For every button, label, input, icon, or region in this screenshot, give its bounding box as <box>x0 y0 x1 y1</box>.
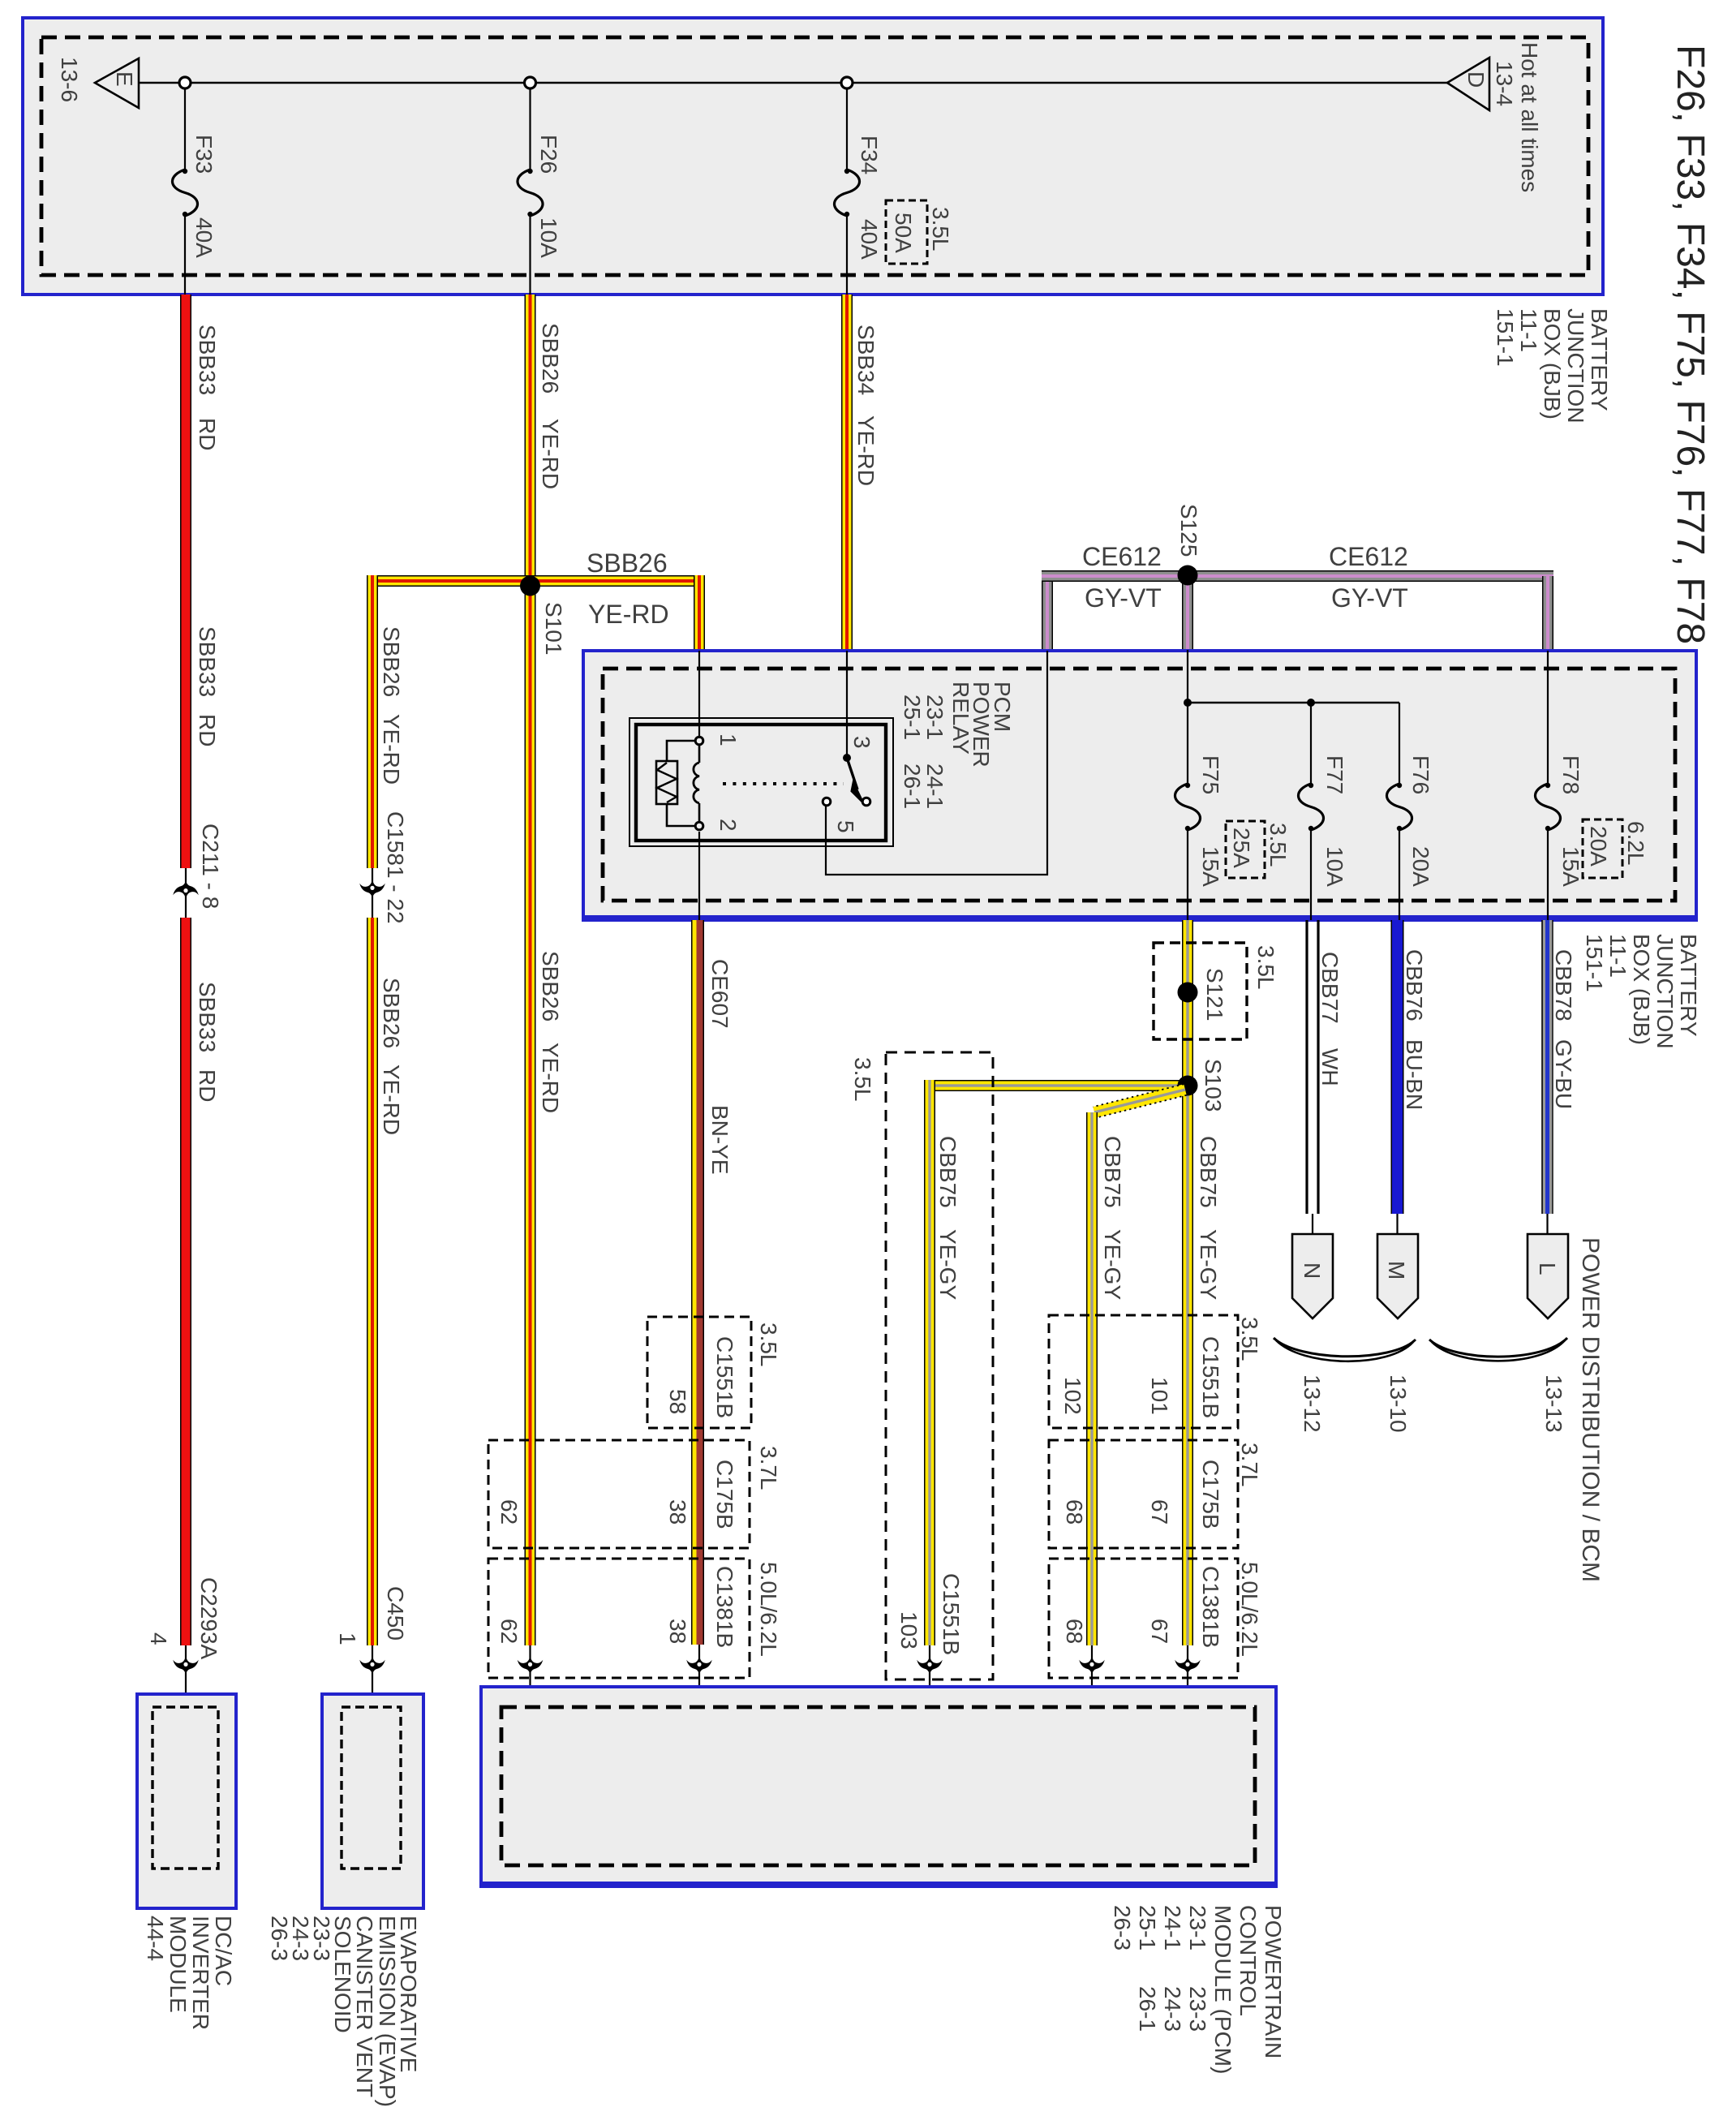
svg-text:13-12: 13-12 <box>1300 1374 1325 1433</box>
bus tap node <box>841 77 853 88</box>
svg-text:CBB75: CBB75 <box>1196 1136 1221 1208</box>
fuse F34 40A <box>846 88 848 170</box>
battery junction box BJB (top) <box>23 18 1603 295</box>
wire CBB76 BU-BN <box>1391 920 1404 1214</box>
svg-text:L: L <box>1535 1262 1560 1275</box>
svg-text:CE607: CE607 <box>707 959 733 1029</box>
wire SBB34 YE-RD <box>841 295 853 651</box>
svg-text:INVERTER: INVERTER <box>188 1916 213 2030</box>
svg-text:3.7L: 3.7L <box>756 1446 781 1490</box>
off-page reference triangle E <box>95 58 139 108</box>
svg-text:15A: 15A <box>1558 846 1583 887</box>
BJB inner dashed border <box>41 37 1588 275</box>
rail feeding F75/F77/F76 <box>1188 702 1399 703</box>
svg-text:GY-BU: GY-BU <box>1551 1039 1576 1109</box>
bus tap node <box>525 77 536 88</box>
svg-text:25A: 25A <box>1229 828 1254 868</box>
svg-text:BATTERY: BATTERY <box>1676 934 1701 1037</box>
fuse F76 20A <box>1399 703 1400 785</box>
svg-text:C1551B: C1551B <box>1198 1336 1223 1418</box>
svg-text:YE-RD: YE-RD <box>853 415 879 486</box>
svg-text:S101: S101 <box>541 602 566 655</box>
splice S121 <box>1154 943 1247 1039</box>
svg-text:26-1: 26-1 <box>1135 1986 1160 2032</box>
wire CE612 GY-VT <box>1042 576 1053 650</box>
svg-text:11-1: 11-1 <box>1516 308 1541 352</box>
svg-text:D: D <box>1463 71 1489 88</box>
diagonal CBB75 branch <box>1093 1084 1186 1118</box>
svg-text:3.5L: 3.5L <box>928 207 953 252</box>
svg-text:CBB75: CBB75 <box>1100 1136 1125 1208</box>
svg-text:RD: RD <box>195 714 220 746</box>
svg-text:SBB26: SBB26 <box>379 978 404 1048</box>
relay coil <box>667 741 695 826</box>
svg-text:C1381B: C1381B <box>712 1566 737 1648</box>
svg-text:POWER DISTRIBUTION / BCM: POWER DISTRIBUTION / BCM <box>1577 1237 1604 1582</box>
svg-text:F33: F33 <box>191 135 217 174</box>
svg-text:40A: 40A <box>857 219 882 260</box>
svg-text:44-4: 44-4 <box>143 1916 168 1961</box>
svg-text:13-6: 13-6 <box>57 57 82 102</box>
svg-text:62: 62 <box>496 1499 522 1525</box>
in-line connector C211-8 <box>185 868 187 918</box>
svg-text:3.5L: 3.5L <box>1265 823 1291 867</box>
svg-text:15A: 15A <box>1198 846 1223 887</box>
svg-text:23-1: 23-1 <box>1185 1905 1210 1950</box>
svg-text:F26: F26 <box>536 135 561 174</box>
svg-text:SBB26: SBB26 <box>379 626 404 697</box>
svg-text:58: 58 <box>665 1389 690 1414</box>
svg-text:JUNCTION: JUNCTION <box>1652 934 1678 1049</box>
fuse F75 15A <box>1187 703 1188 785</box>
fuse F77 10A <box>1310 703 1312 785</box>
svg-text:10A: 10A <box>1322 846 1347 887</box>
svg-text:1: 1 <box>335 1632 360 1645</box>
svg-text:JUNCTION: JUNCTION <box>1563 308 1588 424</box>
svg-text:BN-YE: BN-YE <box>707 1105 733 1175</box>
svg-text:S125: S125 <box>1176 504 1201 557</box>
svg-text:SBB26: SBB26 <box>587 548 668 578</box>
lead from SBB26 branch to relay pin 1 <box>698 651 700 738</box>
svg-text:CONTROL: CONTROL <box>1235 1905 1261 2016</box>
connector M <box>1377 1234 1418 1318</box>
svg-text:3.5L: 3.5L <box>756 1322 781 1367</box>
svg-text:26-3: 26-3 <box>1110 1905 1135 1950</box>
svg-text:SBB33: SBB33 <box>195 982 220 1052</box>
connector L <box>1528 1234 1568 1318</box>
svg-text:EMISSION (EVAP): EMISSION (EVAP) <box>375 1916 400 2107</box>
svg-text:C1581 - 22: C1581 - 22 <box>383 811 408 924</box>
wire CBB75 YE-GY left (3.5L) <box>924 1080 935 1645</box>
svg-text:3: 3 <box>849 736 874 749</box>
svg-text:5: 5 <box>833 820 858 833</box>
off-page reference triangle D <box>1447 58 1489 110</box>
connector C175B (3.7L) box right <box>1049 1440 1238 1548</box>
relay pin 5 <box>823 798 831 806</box>
svg-text:F75: F75 <box>1198 755 1223 794</box>
svg-text:CE612: CE612 <box>1329 542 1408 571</box>
svg-text:4: 4 <box>146 1632 171 1645</box>
svg-text:5.0L/6.2L: 5.0L/6.2L <box>756 1562 781 1657</box>
svg-text:CE612: CE612 <box>1082 542 1162 571</box>
svg-text:24-1: 24-1 <box>1160 1905 1185 1950</box>
6.2L 20A alternate rating box <box>1583 819 1622 878</box>
svg-text:C450: C450 <box>383 1586 408 1641</box>
DC/AC inverter module box <box>137 1694 236 1908</box>
fuse F78 15A <box>1547 651 1549 785</box>
svg-text:103: 103 <box>896 1611 922 1649</box>
svg-text:23-1: 23-1 <box>922 695 947 740</box>
svg-text:E: E <box>112 71 137 87</box>
svg-text:SBB26: SBB26 <box>538 323 563 394</box>
svg-text:38: 38 <box>665 1619 690 1644</box>
lead relay pin2 to CE607 <box>698 832 700 920</box>
svg-text:F78: F78 <box>1558 755 1583 794</box>
svg-text:151-1: 151-1 <box>1493 308 1518 367</box>
svg-text:3.5L: 3.5L <box>850 1057 875 1102</box>
svg-text:CBB78: CBB78 <box>1551 949 1576 1021</box>
svg-text:F77: F77 <box>1322 755 1347 794</box>
relay actuation dotted link <box>723 782 844 785</box>
svg-text:62: 62 <box>496 1619 522 1644</box>
battery junction box BJB (lower, PCM power relay) <box>583 651 1696 920</box>
relay switch blade <box>847 758 857 789</box>
svg-text:C1381B: C1381B <box>1198 1566 1223 1648</box>
svg-text:C175B: C175B <box>1198 1460 1223 1529</box>
svg-text:13-4: 13-4 <box>1492 61 1517 106</box>
svg-text:13-10: 13-10 <box>1386 1374 1411 1433</box>
svg-text:C1551B: C1551B <box>712 1336 737 1418</box>
svg-text:SBB33: SBB33 <box>195 626 220 697</box>
svg-text:C2293A: C2293A <box>196 1577 221 1660</box>
svg-text:3.5L: 3.5L <box>1237 1317 1262 1361</box>
svg-text:MODULE: MODULE <box>165 1916 191 2013</box>
svg-text:C211 - 8: C211 - 8 <box>198 824 223 909</box>
relay pin 2 <box>695 822 703 830</box>
connector C1551B (3.5L) pin 58 box <box>647 1317 751 1428</box>
relay pin 3 <box>843 754 851 762</box>
3.5L 50A alternate rating box <box>886 200 927 264</box>
connector C175B (3.7L) box left <box>488 1440 750 1548</box>
svg-text:CBB77: CBB77 <box>1317 952 1343 1024</box>
svg-text:10A: 10A <box>536 217 561 258</box>
svg-text:YE-RD: YE-RD <box>379 714 404 785</box>
PCM power relay box <box>630 718 893 846</box>
fuse F26 10A <box>529 88 531 170</box>
svg-text:GY-VT: GY-VT <box>1085 583 1162 613</box>
wire CBB75 YE-GY center <box>1086 1112 1098 1645</box>
svg-text:40A: 40A <box>191 217 217 258</box>
svg-text:S121: S121 <box>1202 968 1227 1021</box>
bus tap node <box>179 77 191 88</box>
svg-text:F26, F33, F34, F75, F76, F77,: F26, F33, F34, F75, F76, F77, F78 <box>1669 45 1712 644</box>
in-line connector C1581-22 <box>372 868 373 918</box>
svg-text:YE-GY: YE-GY <box>1100 1229 1125 1300</box>
svg-text:68: 68 <box>1062 1619 1087 1644</box>
svg-text:SBB33: SBB33 <box>195 325 220 395</box>
relay pin 1 <box>695 737 703 745</box>
connector C450 pin 1 arrow <box>372 1645 373 1707</box>
wire CBB75 YE-GY main <box>1182 920 1193 1645</box>
svg-text:YE-GY: YE-GY <box>935 1229 960 1300</box>
splice S103 <box>924 1080 1188 1091</box>
svg-text:26-3: 26-3 <box>267 1916 292 1961</box>
svg-text:MODULE (PCM): MODULE (PCM) <box>1210 1905 1235 2074</box>
connector C1551B (3.5L) box right <box>1049 1315 1238 1428</box>
svg-text:67: 67 <box>1147 1499 1172 1525</box>
splice S125 <box>1178 566 1198 586</box>
powertrain control module PCM box <box>481 1687 1276 1886</box>
svg-text:24-1: 24-1 <box>922 763 947 809</box>
brace under L <box>1429 1338 1567 1357</box>
svg-text:C175B: C175B <box>712 1460 737 1529</box>
splice S101 <box>367 575 705 587</box>
svg-text:SBB34: SBB34 <box>853 325 879 395</box>
svg-text:YE-GY: YE-GY <box>1196 1229 1221 1300</box>
connector C1381B (5.0L/6.2L) box left <box>488 1559 750 1678</box>
svg-text:151-1: 151-1 <box>1582 934 1607 992</box>
svg-text:1: 1 <box>715 733 741 746</box>
svg-text:GY-VT: GY-VT <box>1331 583 1408 613</box>
wire SBB33 RD upper segment <box>180 295 191 868</box>
svg-text:3.7L: 3.7L <box>1237 1443 1262 1487</box>
svg-text:YE-RD: YE-RD <box>379 1064 404 1135</box>
svg-text:20A: 20A <box>1408 846 1433 887</box>
svg-text:20A: 20A <box>1586 826 1611 867</box>
svg-text:CBB76: CBB76 <box>1402 949 1427 1021</box>
svg-text:YE-RD: YE-RD <box>588 600 669 629</box>
svg-text:F34: F34 <box>857 135 882 174</box>
svg-text:RELAY: RELAY <box>948 682 973 755</box>
svg-text:WH: WH <box>1317 1048 1343 1086</box>
svg-text:26-1: 26-1 <box>900 763 925 809</box>
svg-text:DC/AC: DC/AC <box>211 1916 236 1986</box>
svg-text:BU-BN: BU-BN <box>1402 1039 1427 1110</box>
svg-text:RD: RD <box>195 418 220 450</box>
svg-text:13-13: 13-13 <box>1541 1374 1566 1433</box>
svg-text:24-3: 24-3 <box>1160 1986 1185 2032</box>
svg-text:11-1: 11-1 <box>1605 934 1631 978</box>
svg-text:Hot at all times: Hot at all times <box>1517 42 1542 192</box>
svg-text:BOX (BJB): BOX (BJB) <box>1540 308 1565 419</box>
svg-text:5.0L/6.2L: 5.0L/6.2L <box>1237 1562 1262 1657</box>
wire SBB26 YE-RD (F26 down to PCM) <box>525 295 536 1645</box>
lead from S125 into BJB rail <box>1187 650 1188 703</box>
svg-text:102: 102 <box>1060 1377 1085 1415</box>
svg-text:38: 38 <box>665 1499 690 1525</box>
brace under N and M <box>1274 1338 1416 1357</box>
svg-text:YE-RD: YE-RD <box>538 419 563 489</box>
svg-text:101: 101 <box>1147 1377 1172 1415</box>
svg-text:N: N <box>1300 1262 1325 1279</box>
lead relay pin5 to CE612 <box>826 651 1047 875</box>
EVAP canister vent solenoid box <box>322 1694 423 1908</box>
svg-text:POWERTRAIN: POWERTRAIN <box>1261 1905 1286 2058</box>
wire CBB78 GY-BU <box>1541 920 1553 1214</box>
wire CE607 BN-YE (relay pin2 to PCM pin 38) <box>691 920 704 1645</box>
branch to relay pin 1 <box>694 575 705 651</box>
svg-text:BOX (BJB): BOX (BJB) <box>1629 934 1654 1045</box>
lead from SBB34 to relay pin 3 <box>846 651 848 759</box>
3.5L 25A alternate rating box <box>1226 821 1265 878</box>
svg-text:25-1: 25-1 <box>900 695 925 740</box>
svg-text:BATTERY: BATTERY <box>1587 308 1612 411</box>
3.5L tall connector box <box>886 1052 993 1679</box>
wire CBB77 WH <box>1305 920 1308 1214</box>
SBB26 arrow into PCM pin 62 <box>529 1645 531 1707</box>
BJB lower inner dashed border <box>603 669 1675 901</box>
svg-text:68: 68 <box>1062 1499 1087 1525</box>
svg-text:M: M <box>1384 1261 1409 1279</box>
svg-text:YE-RD: YE-RD <box>538 1043 563 1113</box>
connector N <box>1292 1234 1333 1318</box>
connector C2293A pin 4 arrow <box>185 1645 187 1707</box>
connector C1381B (5.0L/6.2L) box right <box>1049 1559 1238 1678</box>
svg-text:CBB75: CBB75 <box>935 1136 960 1208</box>
svg-text:RD: RD <box>195 1069 220 1102</box>
svg-text:25-1: 25-1 <box>1135 1905 1160 1950</box>
fuse F33 40A <box>184 88 186 170</box>
svg-text:67: 67 <box>1147 1619 1172 1644</box>
wire SBB26 YE-RD branch to EVAP <box>367 575 378 868</box>
svg-text:2: 2 <box>715 819 741 832</box>
svg-text:50A: 50A <box>891 213 916 253</box>
wire SBB33 RD lower segment <box>180 918 191 1645</box>
svg-text:3.5L: 3.5L <box>1253 945 1278 990</box>
svg-text:S103: S103 <box>1201 1059 1226 1112</box>
svg-text:SBB26: SBB26 <box>538 951 563 1021</box>
svg-text:F76: F76 <box>1408 755 1433 794</box>
svg-text:C1551B: C1551B <box>939 1573 964 1655</box>
svg-text:6.2L: 6.2L <box>1623 821 1648 866</box>
svg-text:23-3: 23-3 <box>1185 1986 1210 2032</box>
bus wire (hot at all times) <box>139 82 1447 84</box>
